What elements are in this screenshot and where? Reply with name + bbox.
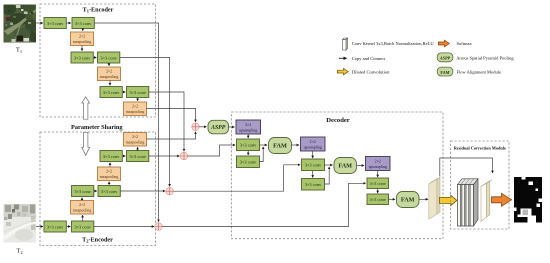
wire conv3 down to conv4 bbox=[312, 171, 314, 178]
softmax orange arrow to output bbox=[492, 193, 512, 206]
T1 conv R3A bbox=[100, 87, 122, 98]
T1 conv R2A bbox=[71, 52, 93, 63]
svg-text:3×3 conv: 3×3 conv bbox=[369, 181, 386, 186]
RCM output slab bbox=[481, 180, 492, 222]
svg-text:Decoder: Decoder bbox=[326, 117, 350, 124]
wire upsample2 down to conv3 bbox=[312, 151, 314, 158]
legend conv slab icon bbox=[343, 38, 348, 50]
input image T2 bbox=[4, 204, 37, 243]
svg-text:ASPP: ASPP bbox=[210, 125, 226, 131]
wire R2B down to MP2 bbox=[108, 63, 110, 66]
wire MP1b up to R2A bbox=[81, 198, 83, 201]
T2 conv R2B bbox=[98, 186, 120, 197]
wire T2 row1 into node4 bbox=[94, 226, 154, 228]
svg-text:2×2: 2×2 bbox=[106, 170, 112, 174]
ASPP module bbox=[208, 120, 229, 134]
wire node2 to conv1 bbox=[188, 145, 235, 156]
wire node1 to ASPP bbox=[199, 126, 206, 128]
svg-text:maxpooling: maxpooling bbox=[73, 40, 92, 44]
wire conv6 to FAM3 bbox=[389, 198, 396, 200]
svg-text:3×3 conv: 3×3 conv bbox=[129, 154, 146, 159]
legend ASPP pill bbox=[437, 53, 453, 62]
svg-text:3×3 conv: 3×3 conv bbox=[75, 21, 92, 26]
wire skip T1 row2 to node3 bbox=[120, 58, 170, 187]
T1 conv R2B bbox=[98, 52, 120, 63]
wire T2 R1A to R1B bbox=[66, 226, 70, 228]
svg-text:2×2: 2×2 bbox=[310, 140, 316, 144]
svg-text:Softmax: Softmax bbox=[457, 41, 473, 46]
wire upsample1 down to conv1 bbox=[247, 134, 249, 138]
svg-text:3×3 conv: 3×3 conv bbox=[47, 224, 64, 229]
wire T2 MP3b to node1 from below bbox=[147, 132, 196, 139]
upsample2 box bbox=[301, 137, 326, 151]
node3 sum bbox=[166, 188, 173, 195]
wire R1B down to MP1 bbox=[82, 29, 84, 31]
svg-text:2×2: 2×2 bbox=[132, 135, 138, 139]
svg-text:Parameter Sharing: Parameter Sharing bbox=[71, 124, 123, 131]
decoder conv1 bbox=[237, 139, 260, 151]
FAM2 module bbox=[334, 158, 357, 174]
wire skip T1 row1 to node4 bbox=[94, 23, 158, 222]
svg-text:3×3 conv: 3×3 conv bbox=[74, 189, 91, 194]
wire node4 to conv5 bbox=[162, 183, 365, 226]
decoder conv3 bbox=[302, 159, 325, 171]
wire T2 R1B up to MP1b bbox=[82, 215, 84, 221]
T1 maxpool MP3 bbox=[124, 102, 147, 116]
Decoder dashed box bbox=[232, 112, 444, 239]
svg-text:upsampling: upsampling bbox=[239, 128, 257, 132]
T2 conv R1B bbox=[72, 221, 94, 232]
T2 conv R2A bbox=[72, 186, 94, 197]
svg-text:2×2: 2×2 bbox=[79, 35, 85, 39]
input image T1 bbox=[2, 3, 38, 43]
FAM3 module bbox=[397, 192, 420, 208]
svg-text:maxpooling: maxpooling bbox=[126, 110, 145, 114]
wire T2 R3B up to MP3b bbox=[137, 147, 139, 150]
RCM conv stack bbox=[458, 179, 479, 226]
wire FAM1 to upsample2 bbox=[292, 144, 299, 146]
T2 conv R3A bbox=[100, 151, 122, 162]
T1 conv R3B bbox=[127, 87, 149, 98]
svg-text:Copy and Connect: Copy and Connect bbox=[352, 56, 386, 61]
wire R1A to R1B bbox=[66, 22, 71, 24]
T1 conv R1B bbox=[72, 18, 94, 29]
residual wire over conv stack bbox=[440, 158, 493, 177]
wire FAM3 to feature slab bbox=[419, 198, 428, 200]
svg-text:2×2: 2×2 bbox=[79, 203, 85, 207]
T1-Encoder dashed box bbox=[40, 4, 156, 117]
svg-text:3×3 conv: 3×3 conv bbox=[74, 224, 91, 229]
svg-text:3×3 conv: 3×3 conv bbox=[129, 90, 146, 95]
T2 maxpool MP3b bbox=[124, 133, 147, 147]
svg-text:Dilated Convolution: Dilated Convolution bbox=[352, 69, 390, 74]
decoder conv4 bbox=[302, 179, 325, 191]
wire conv4 up join bbox=[325, 167, 330, 184]
wire T1 image to R1A bbox=[36, 22, 43, 24]
softmax yellow arrow into RCM bbox=[440, 195, 457, 205]
svg-text:2×2: 2×2 bbox=[106, 70, 112, 74]
svg-text:ASPP: ASPP bbox=[439, 56, 451, 61]
wire conv3 to FAM2 bbox=[325, 164, 333, 166]
wire T2 R2A to R2B bbox=[94, 190, 97, 192]
wire T2 image to R1A bbox=[36, 226, 43, 228]
wire conv2 up join bbox=[260, 147, 264, 162]
T1 conv R1A bbox=[44, 18, 66, 29]
node1 sum bbox=[192, 123, 199, 130]
legend softmax orange arrow bbox=[438, 40, 449, 47]
svg-text:3×3 conv: 3×3 conv bbox=[101, 189, 118, 194]
wire upsample3 down to conv5 bbox=[377, 171, 379, 178]
svg-text:2×2: 2×2 bbox=[132, 105, 138, 109]
feature slab before RCM bbox=[429, 177, 440, 219]
svg-text:3×3 conv: 3×3 conv bbox=[369, 197, 386, 202]
svg-text:FAM: FAM bbox=[338, 163, 352, 170]
node2 sum bbox=[180, 152, 187, 159]
svg-text:maxpooling: maxpooling bbox=[73, 209, 92, 213]
node4 sum bbox=[155, 223, 162, 230]
T2 conv R1A bbox=[44, 221, 66, 232]
wire R3B down to MP3 bbox=[137, 98, 139, 101]
wire T2 row2 into node3 bbox=[120, 190, 165, 192]
wire conv1 to FAM1 bbox=[260, 144, 268, 146]
svg-text:3×3 conv: 3×3 conv bbox=[305, 163, 322, 168]
wire MP1 down to R2A bbox=[81, 46, 83, 51]
svg-text:3×3 conv: 3×3 conv bbox=[240, 143, 257, 148]
Residual Correction Module dashed box bbox=[451, 141, 510, 229]
svg-text:3×3 conv: 3×3 conv bbox=[103, 154, 120, 159]
svg-text:Flow Alignment Module: Flow Alignment Module bbox=[457, 70, 502, 75]
decoder conv6 bbox=[367, 194, 389, 205]
svg-text:3×3 conv: 3×3 conv bbox=[74, 55, 91, 60]
svg-text:upsampling: upsampling bbox=[304, 145, 322, 149]
wire ASPP to upsample1 bbox=[229, 126, 235, 128]
wire FAM2 to upsample3 bbox=[357, 165, 365, 167]
svg-text:upsampling: upsampling bbox=[369, 165, 387, 169]
svg-text:3×3 conv: 3×3 conv bbox=[47, 21, 64, 26]
wire MP2 down to R3A bbox=[109, 81, 111, 86]
wire R2A to R2B bbox=[93, 57, 96, 59]
wire node3 to conv3 bbox=[173, 165, 300, 191]
legend FAM pill bbox=[437, 67, 453, 76]
T2-Encoder dashed box bbox=[40, 132, 156, 246]
svg-text:3×3 conv: 3×3 conv bbox=[305, 182, 322, 187]
legend dilated conv yellow arrow bbox=[337, 68, 348, 74]
wire T2 R2B up to MP2b bbox=[108, 182, 110, 186]
svg-text:maxpooling: maxpooling bbox=[126, 141, 145, 145]
svg-text:3×3 conv: 3×3 conv bbox=[240, 160, 257, 165]
decoder conv5 bbox=[367, 178, 389, 189]
upsample1 box bbox=[236, 120, 261, 134]
wire conv1 down to conv2 bbox=[247, 151, 249, 156]
svg-text:Residual Correction Module: Residual Correction Module bbox=[454, 145, 506, 150]
wire R3A to R3B bbox=[122, 91, 125, 93]
svg-text:FAM: FAM bbox=[440, 70, 449, 75]
legend copy arrow bbox=[339, 57, 347, 59]
T2 maxpool MP2b bbox=[98, 167, 121, 181]
wire T1 MP3 to node1 bbox=[147, 109, 196, 122]
svg-text:3×3 conv: 3×3 conv bbox=[100, 55, 117, 60]
T2 conv R3B bbox=[127, 151, 149, 162]
svg-text:FAM: FAM bbox=[401, 197, 415, 204]
Parameter Sharing up arrow bbox=[82, 97, 90, 119]
T1 maxpool MP1 bbox=[71, 32, 94, 46]
wire conv5 down to conv6 bbox=[377, 189, 379, 194]
svg-text:maxpooling: maxpooling bbox=[100, 175, 119, 179]
svg-text:maxpooling: maxpooling bbox=[100, 75, 119, 79]
svg-text:Atrous Spatial Pyramid Pooling: Atrous Spatial Pyramid Pooling bbox=[456, 56, 514, 61]
T2 maxpool MP1b bbox=[71, 201, 94, 215]
svg-text:2×2: 2×2 bbox=[375, 159, 381, 163]
svg-text:FAM: FAM bbox=[273, 143, 287, 150]
svg-text:3×3 conv: 3×3 conv bbox=[103, 90, 120, 95]
wire T2 row3 into node2 bbox=[149, 155, 180, 157]
FAM1 module bbox=[269, 138, 292, 154]
T1 maxpool MP2 bbox=[98, 67, 121, 81]
output change map bbox=[514, 177, 542, 223]
wire MP2b up to R3A bbox=[109, 163, 111, 167]
decoder conv2 bbox=[237, 156, 260, 168]
upsample3 box bbox=[366, 157, 391, 171]
wire T2 R3A to R3B bbox=[122, 155, 125, 157]
wire skip T1 row3 to node2 bbox=[149, 92, 184, 151]
svg-text:2×2: 2×2 bbox=[245, 123, 251, 127]
Parameter Sharing down arrow bbox=[82, 132, 90, 155]
